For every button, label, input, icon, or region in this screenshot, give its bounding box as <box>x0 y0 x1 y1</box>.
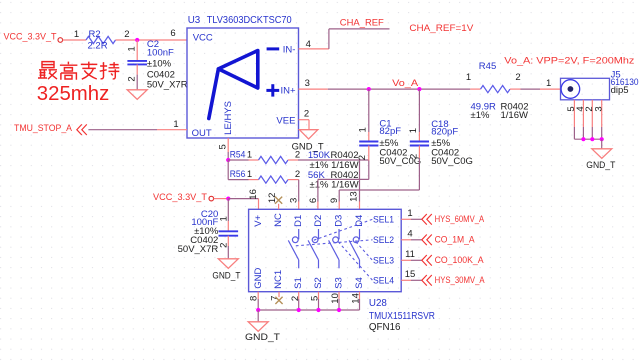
svg-text:R2: R2 <box>89 29 101 40</box>
svg-text:2: 2 <box>295 169 300 180</box>
svg-text:VCC: VCC <box>193 33 213 44</box>
svg-text:VEE: VEE <box>276 116 295 127</box>
svg-text:5: 5 <box>310 296 321 301</box>
annotation text 最高支持 (hand-drawn glyphs) <box>38 62 119 80</box>
svg-text:S3: S3 <box>334 277 345 289</box>
svg-text:±10%: ±10% <box>147 58 172 69</box>
svg-text:GND_T: GND_T <box>245 332 280 343</box>
wire to R56 pin1 <box>228 179 248 181</box>
pin 8 stub of U28 GND <box>257 292 259 299</box>
svg-text:VCC_3.3V_T: VCC_3.3V_T <box>153 192 207 203</box>
svg-text:CHA_REF: CHA_REF <box>340 17 384 28</box>
junction nodes on J5 ground bus <box>581 137 585 141</box>
wire R54 pin2 to C1 column <box>288 159 298 161</box>
off-page chevron HYS_30MV_A <box>422 275 432 286</box>
svg-text:6: 6 <box>308 198 319 203</box>
wire U28 ground bus <box>258 309 359 311</box>
resistor R2 <box>86 36 116 43</box>
inverting input marker minus <box>267 47 280 50</box>
pin 15 stub of U28 SEL <box>401 279 411 281</box>
dashed control line to SEL3 <box>356 242 373 260</box>
svg-text:TMUX1511RSVR: TMUX1511RSVR <box>369 311 435 322</box>
wire bus down to ground <box>601 139 603 149</box>
svg-text:R56: R56 <box>230 169 246 180</box>
svg-text:VCC_3.3V_T: VCC_3.3V_T <box>4 31 57 42</box>
svg-text:S2: S2 <box>313 277 324 289</box>
svg-text:1: 1 <box>247 169 252 180</box>
svg-text:HYS_30MV_A: HYS_30MV_A <box>435 275 486 285</box>
svg-text:2.2R: 2.2R <box>88 41 108 52</box>
svg-text:1: 1 <box>74 29 79 40</box>
junction node Vo_A/C1 <box>367 87 371 91</box>
svg-text:CO_100K_A: CO_100K_A <box>435 255 485 265</box>
pin 2 stub of U28 S-line <box>298 292 300 299</box>
svg-text:3: 3 <box>593 106 604 111</box>
pin 5 stub of U28 S-line <box>318 292 320 299</box>
pin 4 stub of U3 <box>299 48 329 50</box>
svg-text:U28: U28 <box>369 298 388 309</box>
svg-text:5: 5 <box>218 144 229 149</box>
svg-text:GND_T: GND_T <box>586 160 615 171</box>
off-page chevron CO_100K_A <box>422 255 432 266</box>
svg-text:4: 4 <box>306 39 311 50</box>
svg-text:1/16W: 1/16W <box>501 110 528 121</box>
svg-text:IN-: IN- <box>283 44 296 55</box>
off-page pin circle VCC_3.3V_T at U28 <box>209 196 214 201</box>
dashed control line to SEL4 <box>338 242 372 280</box>
svg-text:D1: D1 <box>293 215 304 227</box>
svg-text:Vo_A: Vo_A <box>392 78 419 89</box>
wire to R54 pin1 <box>228 159 248 161</box>
wire Vo_A down to C18 pin1 <box>418 89 420 132</box>
wire Vo_A down to C1 pin1 <box>368 89 370 132</box>
wire C20 pin2 to ground <box>227 236 229 246</box>
wire R54 row down to U28 D4 <box>359 160 361 202</box>
ground GND_T below J5 <box>592 149 612 159</box>
junction node Vo_A/C18 <box>417 87 421 91</box>
svg-text:HYS_60MV_A: HYS_60MV_A <box>435 214 485 224</box>
junction nodes on U28 ground bus <box>256 308 260 312</box>
off-page chevron TMU_STOP_A <box>77 124 87 135</box>
svg-text:S1: S1 <box>293 277 304 289</box>
svg-text:TLV3603DCKTSC70: TLV3603DCKTSC70 <box>207 15 293 26</box>
svg-text:OUT: OUT <box>192 128 212 139</box>
wire junction down to R56 row <box>227 160 229 180</box>
mux switch channel 2 <box>308 229 318 268</box>
wire CHA_REF horizontal <box>329 28 390 30</box>
wire R56 pin2 corner <box>288 179 299 181</box>
wire R2 pin2 to junction <box>116 39 138 41</box>
mux switch channel 3 <box>329 229 339 268</box>
svg-text:SEL2: SEL2 <box>373 235 394 246</box>
wire C1 pin2 down <box>368 146 370 161</box>
connector J5 coax circle <box>561 80 580 99</box>
svg-text:LE/HYS: LE/HYS <box>223 101 234 135</box>
svg-text:D3: D3 <box>334 215 345 227</box>
pin 4 stub of U28 SEL <box>401 239 411 241</box>
pin 10 stub of U28 S-line <box>338 292 340 299</box>
junction node pin5/R54 <box>226 158 230 162</box>
dashed control line to SEL2 <box>296 240 373 246</box>
ground GND_T below C2 <box>127 90 147 100</box>
wire VCC to R2 pin1 <box>63 39 86 41</box>
wire up from pin 4 <box>328 29 330 49</box>
junction node VCC/C20 <box>226 197 230 201</box>
non-inverting input marker plus <box>266 89 279 92</box>
svg-text:CHA_REF=1V: CHA_REF=1V <box>409 23 474 34</box>
wire Vo_A horizontal run <box>328 88 471 90</box>
wire junction down to C20 <box>227 199 229 221</box>
svg-text:325mhz: 325mhz <box>37 82 110 105</box>
mux switch channel 1 <box>288 229 298 268</box>
svg-text:TMU_STOP_A: TMU_STOP_A <box>14 123 73 134</box>
svg-text:D2: D2 <box>313 215 324 227</box>
svg-text:1: 1 <box>173 119 178 130</box>
capacitor C2 <box>127 60 147 62</box>
wire C18 pin2 down <box>418 146 420 159</box>
svg-text:1: 1 <box>407 208 412 219</box>
svg-text:R45: R45 <box>479 61 496 72</box>
svg-text:NC1: NC1 <box>273 270 284 289</box>
op-amp U3 body box <box>187 28 299 138</box>
pin 3 stub of U3 <box>299 88 328 90</box>
wire junction to U28 V+ pin16 <box>228 198 258 200</box>
pin 11 stub of U28 SEL <box>401 259 411 261</box>
connector J5 body <box>561 78 610 100</box>
svg-text:SEL3: SEL3 <box>373 255 394 266</box>
wire Vo_A to R45 pin1 <box>470 88 480 90</box>
svg-text:1: 1 <box>546 78 551 89</box>
svg-text:2: 2 <box>515 72 520 83</box>
wire jog left to U28 D3 <box>339 189 419 191</box>
resistor R45 <box>481 86 511 93</box>
svg-text:SEL1: SEL1 <box>373 214 394 225</box>
wire jog left to U28 D2 <box>318 178 369 180</box>
ground GND_T below C20 <box>218 259 238 269</box>
capacitor C1 <box>359 141 378 143</box>
svg-text:8: 8 <box>248 296 259 301</box>
svg-text:dip5: dip5 <box>611 85 629 96</box>
svg-text:GND_T: GND_T <box>212 271 240 282</box>
capacitor C18 <box>410 141 429 143</box>
pin 14 stub of U28 S-line <box>359 292 361 299</box>
svg-text:V+: V+ <box>253 214 264 226</box>
svg-text:9: 9 <box>329 198 340 203</box>
svg-text:±1% 1/16W: ±1% 1/16W <box>310 180 359 191</box>
resistor R56 <box>259 176 289 183</box>
pin 5 stub of U3 <box>227 138 229 152</box>
svg-text:GND: GND <box>253 268 264 289</box>
svg-text:3: 3 <box>288 198 299 203</box>
svg-text:1: 1 <box>466 72 471 83</box>
pin 1 stub of U3 <box>157 129 187 131</box>
pin 12 stub <box>278 204 280 210</box>
svg-text:2: 2 <box>290 296 301 301</box>
op-amp triangle symbol <box>218 51 257 89</box>
mux U28 body box <box>249 209 402 291</box>
svg-text:Vo_A: VPP=2V, F=200Mhz: Vo_A: VPP=2V, F=200Mhz <box>504 56 634 67</box>
svg-text:1: 1 <box>218 216 229 221</box>
svg-text:2: 2 <box>409 154 420 159</box>
svg-text:CO_1M_A: CO_1M_A <box>435 235 476 245</box>
wire down to U28 D1 <box>298 180 300 202</box>
svg-text:1: 1 <box>127 46 138 51</box>
wire TMU_STOP_A to U3 OUT <box>88 129 157 131</box>
wire J5 ground bus <box>574 138 601 140</box>
svg-text:16: 16 <box>248 189 259 200</box>
svg-text:2: 2 <box>295 149 300 160</box>
svg-text:820pF: 820pF <box>431 127 458 138</box>
svg-text:100nF: 100nF <box>147 47 174 58</box>
svg-text:2: 2 <box>124 29 129 40</box>
svg-text:3: 3 <box>305 78 310 89</box>
junction node VCC/C2 <box>135 38 139 42</box>
svg-text:1: 1 <box>358 127 369 132</box>
wire C2 pin2 to ground <box>136 64 138 74</box>
svg-text:1: 1 <box>247 149 252 160</box>
mux switch channel 4 <box>349 229 359 268</box>
svg-text:2: 2 <box>357 155 368 160</box>
wire junction to U3 VCC pin 6 <box>137 39 187 41</box>
wire pin5 to R54 junction <box>227 152 229 160</box>
svg-text:2: 2 <box>127 76 138 81</box>
svg-text:13: 13 <box>349 191 360 202</box>
svg-text:82pF: 82pF <box>379 126 401 137</box>
wire bus down to ground <box>257 310 259 322</box>
svg-text:1: 1 <box>408 128 419 133</box>
svg-text:50V_X7R: 50V_X7R <box>147 79 188 90</box>
op-amp output stroke <box>209 69 219 119</box>
svg-text:4: 4 <box>407 228 412 239</box>
svg-text:11: 11 <box>405 249 415 260</box>
resistor R54 <box>259 156 289 163</box>
svg-text:R54: R54 <box>230 149 246 160</box>
J5 ground pins 5 4 2 3 <box>573 100 575 127</box>
wire R45 pin2 to J5 <box>510 88 521 90</box>
svg-text:IN+: IN+ <box>281 86 297 97</box>
svg-text:10: 10 <box>330 293 341 304</box>
svg-text:S4: S4 <box>354 277 365 289</box>
svg-text:SEL4: SEL4 <box>373 275 394 286</box>
svg-text:2: 2 <box>304 108 309 119</box>
wire junction down to C2 pin1 <box>136 40 138 61</box>
svg-text:50V_X7R: 50V_X7R <box>178 244 219 255</box>
ground GND_T below VEE <box>299 130 317 139</box>
svg-text:±1%: ±1% <box>471 110 490 121</box>
wire VCC to junction <box>214 198 229 200</box>
dashed control line to SEL1 <box>314 219 373 240</box>
svg-text:QFN16: QFN16 <box>369 322 401 333</box>
no-connect X on pin 12 <box>275 197 282 204</box>
off-page pin circle VCC_3.3V_T <box>58 38 63 43</box>
no-connect X on pin 7 <box>275 297 282 304</box>
svg-text:50V_C0G: 50V_C0G <box>431 156 473 167</box>
ground GND_T below U28 <box>248 322 268 332</box>
svg-text:U3: U3 <box>188 15 201 26</box>
pin 2 stub of U3 VEE <box>299 119 310 121</box>
pin 7 stub of U28 NC1 <box>278 292 280 298</box>
off-page chevron HYS_60MV_A <box>422 214 432 225</box>
pin 1 stub of U28 SEL <box>401 218 411 220</box>
svg-text:15: 15 <box>405 269 416 280</box>
svg-text:NC: NC <box>273 213 284 227</box>
svg-text:14: 14 <box>351 293 362 304</box>
off-page chevron CO_1M_A <box>422 235 432 246</box>
capacitor C20 <box>219 230 239 232</box>
svg-text:6: 6 <box>170 28 175 39</box>
